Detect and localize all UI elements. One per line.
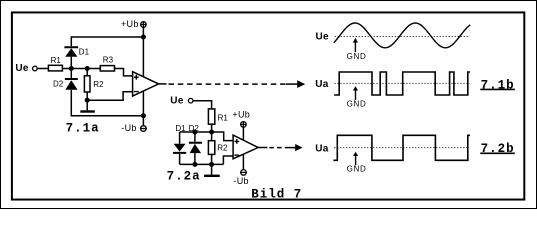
svg-text:7.1a: 7.1a xyxy=(66,122,100,136)
svg-text:GND: GND xyxy=(347,99,367,108)
svg-text:7.2a: 7.2a xyxy=(167,170,201,184)
svg-text:Ue: Ue xyxy=(170,96,184,107)
svg-text:-Ub: -Ub xyxy=(233,176,248,186)
svg-text:D2: D2 xyxy=(53,80,64,89)
svg-text:Ua: Ua xyxy=(315,144,329,155)
svg-text:+Ub: +Ub xyxy=(121,19,139,29)
svg-text:D2: D2 xyxy=(189,124,200,133)
svg-text:-Ub: -Ub xyxy=(121,123,136,133)
svg-text:R2: R2 xyxy=(93,80,104,89)
svg-text:Ua: Ua xyxy=(315,79,329,90)
svg-text:Ue: Ue xyxy=(316,31,330,42)
svg-text:+Ub: +Ub xyxy=(232,110,250,120)
svg-text:Ue: Ue xyxy=(15,63,29,74)
svg-text:R1: R1 xyxy=(218,113,229,122)
svg-text:GND: GND xyxy=(347,52,367,61)
svg-text:R3: R3 xyxy=(103,56,114,65)
svg-text:D1: D1 xyxy=(175,124,186,133)
svg-text:GND: GND xyxy=(347,164,367,173)
svg-text:R1: R1 xyxy=(51,56,62,65)
svg-text:D1: D1 xyxy=(79,47,90,56)
svg-text:7.1b: 7.1b xyxy=(481,79,515,93)
svg-text:Bild 7: Bild 7 xyxy=(251,188,302,202)
svg-text:R2: R2 xyxy=(217,144,228,153)
